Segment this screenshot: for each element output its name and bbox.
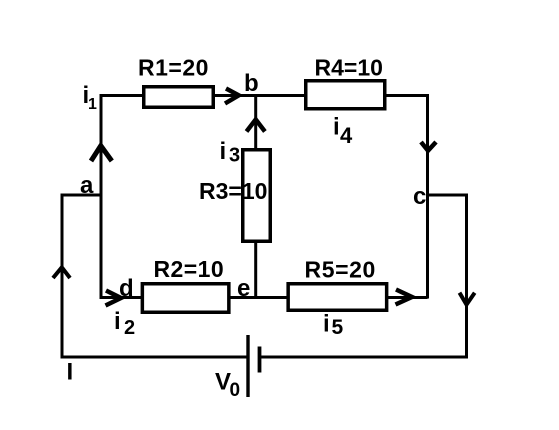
svg-text:I: I — [67, 359, 74, 386]
resistor R5 — [288, 284, 387, 311]
label V0 — [215, 369, 240, 402]
arrow I up (outer left vertical) — [53, 267, 70, 278]
wire outer left vertical (a down to bottom) — [61, 194, 64, 359]
arrow i3 up (R3 branch) — [247, 120, 265, 132]
wire R3 branch vertical (b down to e) — [254, 96, 257, 298]
svg-text:R3=10: R3=10 — [199, 178, 267, 204]
svg-text:i: i — [114, 308, 121, 335]
wire right main vertical (top corner down to R5 exit) — [426, 94, 429, 299]
resistor R3 — [243, 150, 271, 242]
svg-text:3: 3 — [229, 145, 240, 167]
svg-text:4: 4 — [340, 123, 353, 148]
battery V0 short plate — [258, 347, 262, 373]
node A stub wire — [62, 194, 103, 197]
wire top (a-corner to b to c-corner) — [100, 94, 429, 97]
svg-text:i: i — [323, 311, 330, 338]
svg-text:i: i — [333, 114, 340, 141]
svg-text:2: 2 — [124, 317, 135, 339]
resistor R1 — [144, 87, 214, 108]
arrow i1/R1 right (before node b) — [225, 89, 239, 104]
arrow down (outer right vertical) — [460, 293, 475, 305]
svg-text:R1=20: R1=20 — [138, 55, 209, 81]
wire middle row (d through e to right vertical) — [100, 296, 428, 299]
svg-text:a: a — [80, 172, 94, 199]
svg-text:d: d — [119, 275, 134, 302]
label current i3 — [220, 138, 241, 167]
svg-text:c: c — [413, 183, 426, 210]
resistor R4 — [306, 81, 385, 109]
wire outer right vertical (c down to bottom) — [465, 195, 468, 359]
svg-text:R4=10: R4=10 — [315, 55, 383, 81]
svg-text:i: i — [220, 138, 227, 165]
label current i4 — [333, 114, 353, 149]
svg-text:b: b — [244, 70, 259, 97]
arrow i4 down (right main vertical) — [421, 142, 436, 151]
wire bottom right (battery short plate to outer right) — [260, 356, 469, 359]
arrow i1 up (left main vertical) — [91, 146, 112, 161]
arrow i2 right (at node d) — [106, 291, 122, 306]
resistor R2 — [142, 284, 229, 313]
wire left main vertical (top corner down to d) — [100, 94, 103, 299]
label current i5 — [323, 311, 344, 340]
battery V0 long plate — [246, 335, 249, 397]
arrow i5 right (after R5) — [396, 290, 413, 305]
svg-text:5: 5 — [332, 316, 344, 339]
node C stub wire — [426, 194, 468, 197]
svg-text:R2=10: R2=10 — [154, 256, 225, 282]
wire bottom left (to battery long plate) — [61, 356, 249, 359]
svg-text:0: 0 — [230, 380, 241, 401]
svg-text:e: e — [237, 275, 250, 302]
svg-text:R5=20: R5=20 — [305, 257, 376, 283]
label current i1 — [83, 82, 98, 113]
svg-text:1: 1 — [88, 96, 97, 113]
label current i2 — [114, 308, 135, 339]
